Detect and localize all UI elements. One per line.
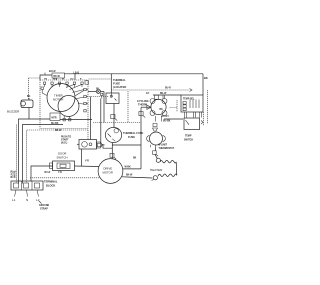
svg-text:GROUND: GROUND (39, 205, 50, 207)
svg-text:PUSH TO: PUSH TO (61, 136, 71, 138)
svg-text:BK-W: BK-W (126, 175, 133, 177)
svg-text:BU-R: BU-R (165, 88, 171, 90)
svg-text:W: W (62, 78, 64, 80)
svg-text:START: START (61, 138, 69, 141)
svg-text:BUZZER: BUZZER (7, 110, 20, 114)
svg-text:(LOCATED: (LOCATED (113, 85, 126, 89)
svg-text:MOTOR: MOTOR (103, 171, 113, 175)
svg-text:MTR: MTR (52, 117, 57, 119)
svg-text:(N.O.): (N.O.) (61, 143, 67, 145)
svg-text:Y-R: Y-R (58, 172, 62, 174)
svg-text:BK: BK (27, 96, 31, 98)
svg-text:BU-R: BU-R (45, 172, 51, 174)
svg-text:FUSE: FUSE (128, 135, 135, 139)
svg-text:W-BK: W-BK (125, 167, 132, 169)
svg-text:THERMAL FUSE: THERMAL FUSE (123, 131, 144, 135)
svg-text:TERMINAL: TERMINAL (44, 180, 58, 184)
svg-text:THERMAL: THERMAL (113, 78, 126, 82)
svg-text:Y-R: Y-R (85, 160, 89, 162)
svg-text:N: N (26, 198, 28, 202)
svg-text:SWITCH: SWITCH (57, 156, 68, 160)
svg-text:BU-GY: BU-GY (162, 116, 170, 118)
svg-text:BLOCK: BLOCK (46, 183, 55, 187)
svg-text:HI-LIMIT: HI-LIMIT (158, 144, 168, 146)
svg-text:BU-R: BU-R (49, 69, 56, 73)
svg-text:BLACK: BLACK (11, 170, 14, 178)
svg-text:STRAP: STRAP (40, 208, 48, 211)
svg-text:BU-BK: BU-BK (163, 121, 171, 123)
svg-text:L1: L1 (12, 198, 16, 202)
svg-text:HEATER: HEATER (150, 168, 163, 172)
svg-text:BR-W: BR-W (55, 130, 62, 132)
svg-text:GY: GY (146, 93, 150, 95)
svg-text:THERM: THERM (138, 103, 147, 107)
svg-text:TEMP: TEMP (185, 136, 192, 138)
svg-text:WHITE: WHITE (15, 170, 17, 178)
svg-text:BK: BK (133, 158, 137, 160)
svg-text:TM: TM (44, 78, 47, 80)
svg-text:SWITCH: SWITCH (184, 139, 193, 141)
svg-text:MOTOR: MOTOR (53, 98, 63, 102)
svg-text:BK: BK (204, 76, 208, 80)
svg-text:CYCLING: CYCLING (137, 99, 149, 103)
svg-text:BK: BK (160, 109, 164, 111)
svg-text:FUSE: FUSE (113, 82, 120, 86)
svg-text:THERMOSTAT: THERMOSTAT (159, 147, 175, 150)
